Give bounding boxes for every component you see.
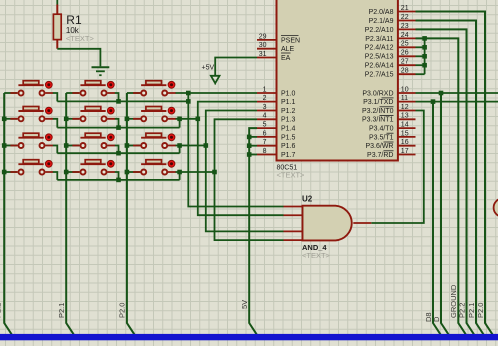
junction row4 line x118: [116, 178, 121, 183]
AND-gate U2 output stub: [353, 222, 371, 224]
junction pins25-27: [422, 54, 427, 59]
junction 5V net: [247, 143, 252, 148]
push button row1 col2: [66, 81, 115, 96]
wire row1 col2 drop: [115, 93, 119, 101]
svg-text:<TEXT>: <TEXT>: [302, 251, 331, 260]
junction rail P2.2 row y172.0: [2, 170, 7, 175]
junction 5V net: [247, 152, 252, 157]
svg-text:P1.3: P1.3: [281, 117, 296, 124]
svg-text:P1.4: P1.4: [281, 126, 296, 133]
push button row4 col1: [4, 160, 53, 175]
wire row4 col2 drop: [115, 172, 119, 180]
svg-text:P2.0: P2.0: [476, 303, 485, 318]
push button row2 col2: [66, 107, 115, 122]
junction rail P2.2 row y118.8: [2, 117, 7, 122]
svg-text:15: 15: [401, 130, 409, 137]
svg-text:P3.4/T0: P3.4/T0: [369, 126, 394, 133]
svg-text:P2.0/A8: P2.0/A8: [369, 9, 394, 16]
svg-text:PSEN: PSEN: [281, 37, 300, 44]
wire P3.0/RXD net (pin10): [416, 92, 498, 94]
svg-text:25: 25: [401, 41, 409, 48]
junction row1 line x118: [116, 99, 121, 104]
junction row2 col3 drop: [177, 117, 182, 122]
svg-text:26: 26: [401, 50, 409, 57]
svg-text:21: 21: [401, 5, 409, 12]
junction row3 col3 drop: [177, 143, 182, 148]
wire row2 line: [57, 127, 179, 129]
wire row3 pin-level line: [176, 145, 206, 147]
junction rail P2.1 row y145.5: [64, 143, 69, 148]
wire row4 pin-level line: [176, 171, 215, 173]
wire R1 top: [56, 0, 58, 5]
80C51 right pin stubs 10-17: [398, 92, 416, 94]
svg-text:P2.1: P2.1: [57, 303, 66, 318]
junction 5V net: [247, 135, 252, 140]
wire P1.3 to row4 net: [215, 119, 284, 240]
junction row4/AND vertical: [212, 170, 217, 175]
svg-text:1: 1: [263, 86, 267, 93]
svg-text:2: 2: [263, 95, 267, 102]
svg-text:P2.6/A14: P2.6/A14: [365, 63, 394, 70]
push button row1 col1: [4, 81, 53, 96]
push button row4 col2: [66, 160, 115, 175]
wire P2.2 net (pin23): [416, 29, 476, 337]
AND-gate U2 body: [303, 206, 352, 241]
bus (blue): [0, 334, 498, 340]
svg-text:27: 27: [401, 59, 409, 66]
svg-text:P2.1/A9: P2.1/A9: [369, 18, 394, 25]
svg-text:5: 5: [263, 122, 267, 129]
wire AND input1 vertical (row1 net): [188, 93, 283, 207]
junction row2/AND vertical: [196, 117, 201, 122]
push button row3 col2: [66, 133, 115, 148]
wire row1 line: [57, 100, 188, 102]
80C51 left pin stubs 29-31: [257, 39, 277, 41]
svg-text:P2.2/A10: P2.2/A10: [365, 27, 394, 34]
svg-text:+5V: +5V: [202, 65, 215, 72]
svg-text:P1.1: P1.1: [281, 99, 296, 106]
push button row2 col1: [4, 107, 53, 122]
svg-text:30: 30: [259, 42, 267, 49]
junction pins25-27: [422, 45, 427, 50]
svg-text:<TEXT>: <TEXT>: [66, 34, 95, 43]
junction rail P2.1 row y118.8: [64, 117, 69, 122]
wire row2 pin-level line: [176, 118, 198, 120]
svg-text:P3.6/WR: P3.6/WR: [365, 143, 393, 150]
svg-text:4: 4: [263, 113, 267, 120]
wire +5V to EA pin31: [215, 58, 257, 76]
svg-text:P1.2: P1.2: [281, 108, 296, 115]
wire GROUND net (pins 24-28): [416, 38, 468, 337]
wire row2 col1 drop: [53, 119, 58, 128]
svg-text:P1.6: P1.6: [281, 143, 296, 150]
svg-text:11: 11: [401, 95, 408, 102]
80C51 left pin stubs 1-8: [257, 92, 277, 94]
svg-text:31: 31: [259, 51, 267, 58]
svg-text:12: 12: [401, 104, 409, 111]
wire pins 24-28 tie: [424, 38, 426, 74]
wire keypad column rail P2.2: [4, 93, 13, 337]
svg-text:23: 23: [401, 23, 409, 30]
junction pin11 drop: [431, 99, 436, 104]
svg-text:P3.7/RD: P3.7/RD: [367, 152, 393, 159]
junction row1 line end: [186, 99, 191, 104]
svg-text:P2.4/A12: P2.4/A12: [365, 45, 394, 52]
svg-text:29: 29: [259, 33, 267, 40]
svg-text:P2.2: P2.2: [457, 303, 466, 318]
svg-text:ALE: ALE: [281, 46, 295, 53]
ground: [92, 66, 110, 68]
junction rail P2.0 row y145.5: [125, 143, 130, 148]
wire keypad column rail P2.1: [66, 93, 75, 337]
svg-text:22: 22: [401, 14, 409, 21]
junction row4 col3 drop: [177, 170, 182, 175]
wire row1 col1 drop: [53, 93, 58, 101]
wire row3 col2 drop: [115, 146, 119, 154]
wire keypad column rail P2.0: [127, 93, 136, 337]
svg-text:P2.3/A11: P2.3/A11: [365, 36, 393, 43]
push button row4 col3: [127, 160, 176, 175]
svg-text:P3.3/INT1: P3.3/INT1: [362, 117, 394, 124]
push button row1 col3: [127, 81, 176, 96]
svg-text:EA: EA: [281, 55, 291, 62]
resistor R1: [56, 5, 58, 49]
wire row2 col2 drop: [115, 119, 119, 128]
svg-text:P2.0: P2.0: [118, 303, 127, 318]
svg-text:U2: U2: [302, 195, 313, 204]
svg-text:P3.1/TXD: P3.1/TXD: [363, 99, 393, 106]
svg-text:13: 13: [401, 113, 409, 120]
svg-text:P3.0/RXD: P3.0/RXD: [362, 90, 393, 97]
junction row3 line x118: [116, 151, 121, 156]
svg-text:D: D: [432, 316, 441, 322]
wire P3.2/INT0 to AND output: [371, 111, 424, 224]
junction pin24: [422, 36, 427, 41]
svg-text:P2.7/A15: P2.7/A15: [365, 72, 394, 79]
svg-text:P1.5: P1.5: [281, 134, 296, 141]
svg-text:P3.5/T1: P3.5/T1: [369, 134, 394, 141]
svg-text:17: 17: [401, 148, 409, 155]
wire 5V net P1.4-P1.7: [249, 128, 258, 337]
80C51 right pin stubs 21-28: [398, 11, 416, 13]
svg-text:P2.5/A13: P2.5/A13: [365, 54, 394, 61]
junction pin10 drop: [439, 91, 444, 96]
svg-text:14: 14: [401, 122, 409, 129]
junction pins25-27: [422, 63, 427, 68]
IC U1 80C51 body: [277, 0, 398, 161]
svg-text:P2.1: P2.1: [467, 303, 476, 318]
svg-text:24: 24: [401, 32, 409, 39]
svg-text:P1.0: P1.0: [281, 90, 296, 97]
junction rail P2.1 row y172.0: [64, 170, 69, 175]
partial component circle at right edge: [494, 198, 498, 216]
svg-text:P1.7: P1.7: [281, 152, 296, 159]
svg-text:P3.2/INT0: P3.2/INT0: [362, 108, 394, 115]
wire P2.0 net (pin21): [416, 12, 495, 338]
svg-text:5V: 5V: [240, 300, 249, 309]
junction rail P2.0 row y118.8: [125, 117, 130, 122]
svg-text:3: 3: [263, 104, 267, 111]
svg-text:8: 8: [263, 148, 267, 155]
svg-text:28: 28: [401, 68, 409, 75]
wire row4 col3 drop: [179, 172, 181, 180]
wire row3 col3 drop: [179, 146, 181, 154]
svg-text:P2.2: P2.2: [0, 303, 3, 318]
wire P3.1/TXD net (pin11): [416, 101, 498, 103]
wire row2 col3 drop: [179, 119, 181, 128]
push button row2 col3: [127, 107, 176, 122]
junction rail P2.0 row y172.0: [125, 170, 130, 175]
junction row3/AND vertical: [204, 143, 209, 148]
svg-text:16: 16: [401, 139, 409, 146]
wire P1.1 to row2 net: [198, 102, 284, 216]
wire row3 line: [57, 152, 179, 154]
junction rail P2.2 row y145.5: [2, 143, 7, 148]
svg-text:6: 6: [263, 130, 267, 137]
wire R1 to ground: [57, 49, 100, 67]
push button row3 col1: [4, 133, 53, 148]
wire row1 pin-level line to P1.0: [176, 92, 258, 94]
wire row4 col1 drop: [53, 172, 58, 180]
wire pin28: [416, 73, 425, 75]
junction row1/AND vertical: [186, 91, 191, 96]
svg-text:10: 10: [401, 86, 409, 93]
wire row3 col1 drop: [53, 146, 58, 154]
svg-text:7: 7: [263, 139, 267, 146]
push button row3 col3: [127, 133, 176, 148]
svg-text:R1: R1: [66, 13, 82, 27]
svg-text:<TEXT>: <TEXT>: [277, 171, 306, 180]
wire row4 line: [57, 179, 179, 181]
junction row2 line x118: [116, 125, 121, 130]
AND-gate U2 input stubs: [284, 206, 303, 208]
wire P1.2 to row3 net: [206, 111, 284, 232]
wire P2.1 net (pin22): [416, 21, 486, 338]
